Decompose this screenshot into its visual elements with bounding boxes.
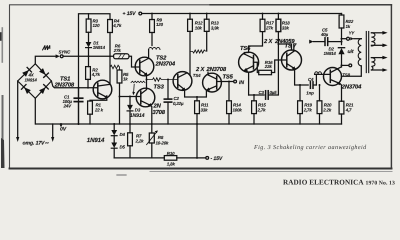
transistor TS4 [173, 72, 192, 92]
resistor R1 [88, 101, 93, 114]
svg-text:TS5: TS5 [223, 74, 234, 81]
wire TS6 emitter to C3 [249, 94, 264, 96]
wire TS2 emitter to TS3 collector [146, 75, 148, 90]
svg-text:2,7k: 2,7k [257, 107, 267, 112]
svg-text:2N3704: 2N3704 [341, 83, 362, 90]
svg-text:2N: 2N [153, 103, 162, 110]
transformer secondary upper [371, 31, 387, 47]
svg-text:3,9k: 3,9k [211, 26, 220, 31]
inductor choke under R9 [149, 33, 160, 59]
wire R10 to -15V terminal [177, 157, 206, 159]
resistor R17 [260, 14, 265, 32]
svg-text:27k: 27k [113, 48, 122, 53]
svg-text:33k: 33k [282, 26, 290, 31]
resistor R5 [117, 70, 122, 83]
svg-text:TS6: TS6 [240, 45, 251, 52]
wire 0V rail [36, 123, 342, 125]
bridge rectifier 4X 1N914 [18, 64, 52, 99]
svg-text:YY: YY [349, 30, 356, 35]
svg-text:1N914: 1N914 [93, 45, 106, 50]
svg-text:10k: 10k [195, 26, 203, 31]
wire IN line [217, 81, 234, 83]
svg-text:IN: IN [239, 80, 244, 86]
resistor R13 [204, 14, 209, 32]
resistor R19 [298, 84, 303, 124]
wire D1 to R2 [88, 48, 90, 67]
svg-text:TS3: TS3 [154, 84, 165, 91]
wire AC leg left [17, 81, 19, 138]
svg-text:1N914: 1N914 [87, 137, 105, 144]
svg-text:0,22µ: 0,22µ [173, 101, 184, 106]
wire R11 through 0V to -15V [196, 114, 198, 158]
node UIT terminal [342, 64, 352, 67]
svg-text:4,7k: 4,7k [112, 23, 122, 28]
resistor R10 [164, 156, 177, 161]
resistor R12 [188, 14, 193, 32]
wire R4 down to TS1 collector [109, 33, 111, 85]
svg-text:D3: D3 [135, 108, 141, 113]
svg-text:2N3704: 2N3704 [155, 61, 176, 68]
wire TS5 collector stub [207, 72, 209, 75]
transformer secondary lower [371, 56, 387, 72]
svg-text:omg. 17V∼: omg. 17V∼ [23, 141, 50, 147]
resistor R15 [252, 95, 257, 124]
svg-text:1N914: 1N914 [324, 51, 337, 56]
svg-text:3708: 3708 [153, 109, 166, 116]
svg-text:0V: 0V [60, 127, 67, 133]
svg-text:TS4: TS4 [193, 73, 201, 78]
svg-text:2,2k: 2,2k [135, 139, 145, 144]
transistor TS6 mirrored [239, 52, 259, 72]
svg-text:1,8k: 1,8k [167, 161, 176, 166]
diode D1 [86, 42, 92, 48]
svg-text:2 X: 2 X [263, 38, 274, 45]
resistor R2 [86, 67, 91, 80]
svg-text:0µ5: 0µ5 [270, 90, 278, 95]
transistor TS3 [136, 88, 155, 107]
resistor R9 [150, 14, 155, 33]
wire R17 to TS6 collector [249, 32, 263, 53]
capacitor C3 [266, 91, 279, 100]
svg-text:22 k: 22 k [94, 108, 104, 113]
ferrite bead link [341, 41, 343, 45]
node IN terminal [234, 80, 237, 83]
svg-text:2.2k: 2.2k [322, 107, 332, 112]
wire R1 to 0V [89, 114, 91, 124]
wire TS3 emitter down [151, 105, 152, 124]
wire R3 drop [88, 14, 90, 19]
svg-text:Fig. 3 Schakeling carrier aan: Fig. 3 Schakeling carrier aanwezigheid [253, 144, 367, 151]
svg-text:D4: D4 [120, 132, 126, 137]
wire +15V rail [142, 13, 342, 15]
svg-text:120: 120 [156, 22, 164, 27]
resistor R11 [195, 97, 200, 114]
diode D5 [111, 136, 117, 158]
svg-text:120: 120 [93, 23, 101, 28]
resistor R6 [114, 54, 130, 59]
transistor TS1 [93, 80, 112, 99]
resistor R4 [108, 20, 113, 33]
resistor R3 [86, 19, 91, 32]
border frame [10, 5, 392, 168]
wire TS1 emitter to R1 [90, 97, 107, 101]
wire TS6 emitter down to C3 node [245, 70, 249, 95]
svg-text:2,7k: 2,7k [303, 107, 313, 112]
wire TS7 collector jog [293, 44, 295, 51]
wire R3 to D1 [88, 32, 90, 42]
resistor R18 [276, 14, 281, 32]
wire R5 to 0V [119, 83, 121, 124]
wire TS6 collector up [244, 53, 248, 55]
svg-text:10-20k: 10-20k [156, 141, 169, 146]
wire R12 to TS4 collector [189, 31, 191, 75]
resistor R14 [227, 82, 232, 125]
resistor R21 [339, 101, 344, 124]
resistor R5 zigzag feed [110, 65, 120, 70]
sawtooth symbol [43, 45, 50, 50]
diode D3 [127, 97, 133, 133]
svg-text:uit: uit [348, 49, 354, 55]
wire C4 up to TS8 base link [315, 74, 317, 85]
svg-text:22k: 22k [264, 64, 273, 69]
wire R16 to TS7 base [272, 60, 287, 73]
svg-text:C3: C3 [259, 90, 265, 95]
capacitor C1 [74, 88, 82, 124]
wire TS3 base [120, 96, 141, 98]
resistor R16 [259, 70, 272, 74]
svg-text:27k: 27k [265, 26, 274, 31]
svg-text:1N914: 1N914 [130, 113, 145, 119]
sync injection link above TS3 [131, 81, 145, 95]
wire TS6 base to R16 [254, 62, 259, 72]
svg-text:4,7: 4,7 [345, 107, 352, 112]
wire bridge right to TS1 base [51, 81, 97, 88]
wire R22 node to primary with connector [342, 38, 347, 40]
wire R18 to TS7 collector and C3 [277, 32, 279, 95]
transformer core [366, 32, 368, 73]
svg-text:1np: 1np [306, 90, 314, 95]
wire supply bracket [79, 14, 111, 124]
svg-text:TS 7: TS 7 [285, 43, 298, 50]
capacitor C2 [164, 79, 171, 124]
diode D4 [111, 124, 117, 136]
inductor link R13 to collector line [190, 31, 207, 53]
diode D2 [338, 48, 344, 67]
svg-text:TS1: TS1 [60, 76, 70, 83]
svg-text:RADIO ELECTRONICA 1970 No. 13: RADIO ELECTRONICA 1970 No. 13 [283, 178, 395, 186]
wire bridge bottom to 0V [34, 98, 36, 124]
resistor R22 [339, 14, 344, 42]
wire primary bottom to TS8 [341, 66, 361, 76]
node +15V terminal [139, 12, 142, 15]
transistor TS5 mirrored [203, 73, 222, 92]
svg-text:4,7k: 4,7k [91, 72, 101, 77]
capacitor C4 [310, 82, 316, 89]
svg-text:+ 15V: + 15V [123, 11, 137, 17]
capacitor C5 with jump arrow [309, 38, 341, 46]
svg-text:1N914: 1N914 [25, 77, 38, 82]
wire TS4 emitter to R11 [185, 90, 197, 97]
resistor R20 [317, 84, 322, 124]
resistor R7 [128, 133, 133, 158]
svg-text:24V: 24V [63, 103, 73, 108]
svg-text:TS8: TS8 [342, 73, 350, 78]
wire sync line [63, 55, 113, 57]
potentiometer R8 [147, 124, 158, 158]
wire TS8 emitter to R21 [340, 84, 342, 102]
svg-text:100k: 100k [233, 107, 243, 112]
transistor TS7 [282, 50, 302, 70]
wire AC leg right [52, 124, 54, 138]
wire bridge top to sync [35, 56, 55, 64]
wire TS7 emitter to C4 [295, 69, 309, 85]
svg-text:TS2: TS2 [156, 55, 167, 62]
svg-text:- 15V: - 15V [211, 156, 223, 162]
svg-text:40µ: 40µ [320, 32, 329, 37]
frame bottom shadow [150, 171, 392, 173]
svg-text:R10: R10 [167, 151, 175, 156]
scan gutter mark [1, 28, 5, 168]
svg-text:2N3708: 2N3708 [206, 66, 227, 73]
node SYNC input terminal [56, 54, 64, 58]
resistor zigzag TS2/TS4 coupling [147, 78, 178, 81]
svg-text:C4: C4 [308, 77, 314, 82]
transistor TS8 [324, 67, 342, 85]
wire -15V rail [114, 157, 164, 159]
svg-text:1k: 1k [346, 24, 351, 29]
svg-text:R8: R8 [158, 135, 164, 140]
svg-text:2N3708: 2N3708 [54, 82, 75, 89]
svg-text:1k: 1k [123, 77, 128, 82]
transistor TS2 [135, 57, 154, 76]
wire R2 to base node [87, 79, 89, 87]
svg-text:33k: 33k [201, 107, 209, 112]
wire TS5 emitter to R11 [197, 90, 207, 97]
transformer primary winding [358, 39, 361, 66]
svg-text:SYNC: SYNC [59, 50, 72, 55]
wire R6 to TS2 base [129, 56, 140, 67]
node -15V terminal [206, 157, 209, 160]
svg-text:D5: D5 [120, 144, 126, 149]
inductor link to TS8 base [315, 72, 331, 75]
